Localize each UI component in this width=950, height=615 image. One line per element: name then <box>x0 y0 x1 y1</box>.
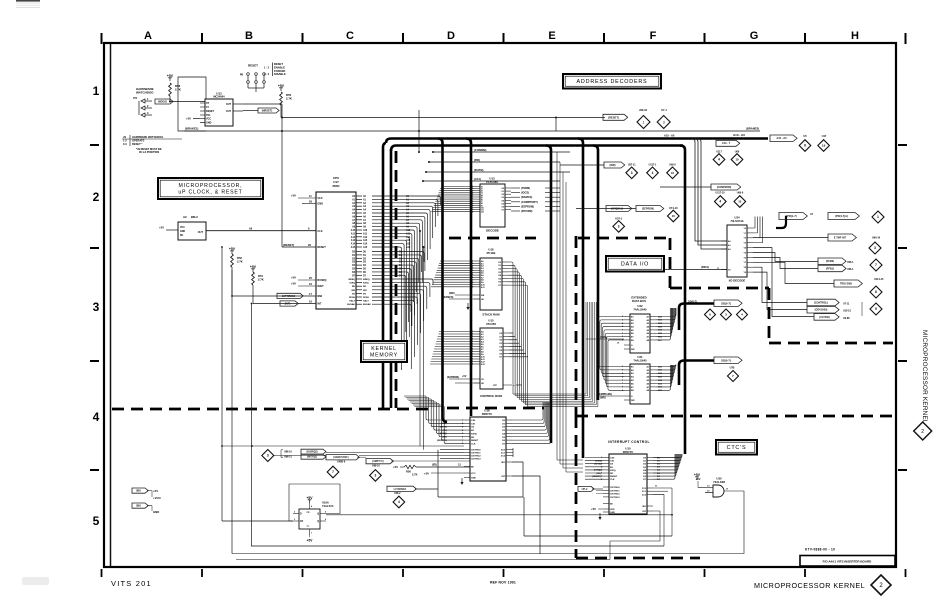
svg-text:SD(0-7): SD(0-7) <box>721 301 731 305</box>
wire loop around U12 <box>178 77 206 131</box>
diamond ref gencsync <box>327 466 339 478</box>
svg-text:CE: CE <box>471 427 475 429</box>
flag SMPTV <box>366 458 393 467</box>
wire bottom loop h446 <box>221 445 464 447</box>
svg-text:2.7K: 2.7K <box>237 259 243 263</box>
ic U21 74ALS645 buffer <box>622 355 656 404</box>
cpu data pins D0-D7 <box>352 252 367 278</box>
flag SD bus upper <box>688 299 742 306</box>
svg-text:BUSAK: BUSAK <box>347 303 355 306</box>
svg-text:3: 3 <box>874 246 876 250</box>
cpu address pins A0-A15 <box>351 195 368 249</box>
wire flip-flop Q out long <box>326 514 673 516</box>
flag E TMF INT <box>828 234 881 241</box>
cpu U17 Z80 <box>316 176 356 309</box>
flag TRIG END <box>834 278 884 287</box>
wire comrb y152 <box>432 151 570 153</box>
dashed boundary kernel memory left vertical <box>395 151 398 408</box>
svg-text:KERNEL: KERNEL <box>371 346 397 352</box>
svg-text:HALT: HALT <box>363 300 369 303</box>
svg-text:REF NOV 1991: REF NOV 1991 <box>490 580 516 584</box>
svg-text:RESET: RESET <box>248 64 258 68</box>
svg-text:(COMRB): (COMRB) <box>474 148 486 152</box>
svg-text:A10: A10 <box>351 229 356 232</box>
svg-text:5B0: 5B0 <box>136 504 141 508</box>
wire reset distribution vertical <box>423 246 425 450</box>
wire bottom vertical x232 <box>231 270 233 554</box>
svg-text:CK/TRG2: CK/TRG2 <box>471 456 481 458</box>
svg-text:(COMPROM): (COMPROM) <box>717 186 732 189</box>
wire bottom h521 to ck <box>222 520 293 522</box>
svg-text:CK: CK <box>300 521 304 523</box>
svg-text:(RD): (RD) <box>442 437 447 439</box>
svg-text:(IOCS): (IOCS) <box>521 191 529 195</box>
svg-text:U17: U17 <box>822 134 827 138</box>
svg-text:IEO: IEO <box>501 462 505 464</box>
svg-text:U96-14: U96-14 <box>872 237 881 240</box>
svg-text:(ULT400): (ULT400) <box>819 316 830 319</box>
svg-text:WR: WR <box>363 290 367 292</box>
svg-text:U48-2: U48-2 <box>394 492 401 495</box>
svg-text:7: 7 <box>875 263 877 267</box>
svg-text:MICROPROCESSOR KERNEL: MICROPROCESSOR KERNEL <box>754 581 865 590</box>
label box CTC'S <box>716 440 757 455</box>
svg-text:*J9 RESET MUST BE: *J9 RESET MUST BE <box>136 147 162 151</box>
svg-text:KTV-0888-00 - 10: KTV-0888-00 - 10 <box>805 548 835 552</box>
flag RESET1 <box>243 108 279 113</box>
diamond ref U74-10 <box>668 206 680 222</box>
wire wr y165 <box>560 164 604 166</box>
svg-text:U7-1: U7-1 <box>661 108 667 112</box>
bus drop at 583 <box>578 139 583 459</box>
svg-text:+5V: +5V <box>424 471 429 475</box>
flag CONTROL <box>807 299 850 306</box>
dashed boundary lower center vertical <box>575 416 578 558</box>
ic U16 stack ram <box>471 248 508 317</box>
svg-text:(DATB): (DATB) <box>474 168 483 172</box>
svg-text:+5V: +5V <box>291 282 296 286</box>
svg-text:MREQ: MREQ <box>348 279 355 281</box>
svg-text:(INT): (INT) <box>285 302 291 305</box>
svg-text:E: E <box>548 30 555 42</box>
svg-text:STACK RAM: STACK RAM <box>482 313 500 317</box>
flag INT net <box>253 299 316 306</box>
sheet border frame <box>104 43 896 567</box>
svg-text:DISABLE: DISABLE <box>274 72 286 76</box>
svg-text:DIR: DIR <box>631 400 635 402</box>
resistor R52 2.7K pullup <box>229 247 243 296</box>
svg-text:7: 7 <box>622 383 623 385</box>
svg-text:(IOCS): (IOCS) <box>594 464 601 466</box>
svg-text:LV DRIVE1: LV DRIVE1 <box>394 488 407 491</box>
svg-text:CTC'S: CTC'S <box>727 445 747 451</box>
svg-text:F/O A4A1 VITS INSERTER BOARD: F/O A4A1 VITS INSERTER BOARD <box>823 559 873 563</box>
svg-text:HALT: HALT <box>349 300 355 303</box>
diamond refs row WR <box>626 163 678 178</box>
svg-text:(RESET): (RESET) <box>283 243 294 247</box>
svg-text:U45B-9: U45B-9 <box>337 460 346 463</box>
svg-text:(RD): (RD) <box>596 473 601 475</box>
svg-text:Q: Q <box>317 521 319 523</box>
svg-text:27C256: 27C256 <box>486 322 496 326</box>
ic U22 74ALS645 buffer <box>622 304 656 353</box>
svg-text:A12: A12 <box>406 236 411 239</box>
svg-text:ST: ST <box>206 102 210 105</box>
power +5V flip-flop bottom <box>307 535 314 542</box>
svg-text:(ODV1800): (ODV1800) <box>815 309 828 312</box>
svg-text:(COMPPORT): (COMPPORT) <box>521 200 538 204</box>
svg-text:CK/TRG1: CK/TRG1 <box>610 490 620 492</box>
svg-text:A: A <box>144 30 152 42</box>
svg-text:+5V: +5V <box>153 489 158 493</box>
gate U30 74ALS08 <box>695 477 729 497</box>
svg-text:(INTRQ2): (INTRQ2) <box>307 457 317 459</box>
svg-text:GND: GND <box>180 231 185 233</box>
bus trunk H2 horizontal <box>391 146 683 152</box>
cpu control pins <box>347 279 371 306</box>
svg-text:CLK: CLK <box>317 230 322 233</box>
svg-text:CK/TRG0: CK/TRG0 <box>471 450 481 452</box>
bus drop at 383 <box>383 143 386 408</box>
diamond sheet number bottom <box>871 575 891 595</box>
svg-text:FORCED: FORCED <box>274 69 285 73</box>
column zone letters A-H <box>144 30 859 42</box>
svg-text:+5V: +5V <box>291 276 296 280</box>
svg-text:PL5C060: PL5C060 <box>486 180 498 184</box>
svg-text:A14: A14 <box>351 243 356 246</box>
svg-text:CONTROL ROM: CONTROL ROM <box>480 394 502 398</box>
svg-text:IN 1-2 POSITION: IN 1-2 POSITION <box>139 150 159 154</box>
svg-text:RD: RD <box>610 473 614 475</box>
svg-text:+5V: +5V <box>462 375 467 378</box>
wire U18 data fan right <box>512 402 551 443</box>
svg-text:U10-13: U10-13 <box>843 310 852 313</box>
svg-text:NC: NC <box>180 235 184 237</box>
connector P2 hardware watchdog input <box>133 96 152 117</box>
diamond refs reset <box>637 108 670 129</box>
label box DATA I/O <box>606 256 664 272</box>
wire fan into U18 left <box>326 396 464 458</box>
svg-text:U9-88: U9-88 <box>843 317 850 320</box>
svg-text:2.7K: 2.7K <box>412 472 418 476</box>
svg-text:(RAMCS): (RAMCS) <box>443 296 454 299</box>
svg-text:Z80CTC: Z80CTC <box>623 450 634 454</box>
cpu power pins <box>291 194 316 286</box>
flag BUSRQ2 INTRQ2 pair <box>281 449 326 459</box>
svg-text:74ALS08: 74ALS08 <box>713 480 725 484</box>
svg-text:U66-6: U66-6 <box>737 191 744 194</box>
svg-text:3: 3 <box>267 454 269 458</box>
bus drop at 471 <box>466 139 471 417</box>
svg-text:(RESET1): (RESET1) <box>437 440 447 442</box>
top-left corner print artifact <box>16 0 40 7</box>
svg-text:(GENCSYNC): (GENCSYNC) <box>333 456 348 459</box>
svg-text:(RTCWR): (RTCWR) <box>521 209 533 213</box>
svg-text:VCC: VCC <box>317 197 322 200</box>
svg-text:+5V: +5V <box>291 194 296 198</box>
wire U12 out to reset rail <box>243 104 283 247</box>
svg-text:MICROPROCESSOR KERNEL: MICROPROCESSOR KERNEL <box>921 330 928 424</box>
wire left taps <box>221 246 252 304</box>
svg-text:OUT: OUT <box>226 110 232 113</box>
bus drop at 551 <box>546 146 551 444</box>
ic U10 Z80CTC interrupt <box>601 447 653 514</box>
svg-text:9: 9 <box>875 307 877 311</box>
svg-text:U96-10: U96-10 <box>372 464 381 467</box>
svg-text:(WR): (WR) <box>609 163 615 167</box>
svg-text:(CS1): (CS1) <box>595 460 601 462</box>
svg-text:+5V: +5V <box>159 226 164 230</box>
row zone numbers 1-5 <box>93 84 100 528</box>
wire drops to ctc left <box>557 152 583 472</box>
svg-text:(IORQSAK): (IORQSAK) <box>611 207 623 210</box>
svg-text:10: 10 <box>735 158 739 162</box>
wire bottom vertical x222 <box>221 247 223 521</box>
svg-text:(RESET): (RESET) <box>608 115 619 119</box>
svg-text:A11: A11 <box>363 232 368 235</box>
svg-text:(BUSRQ2): (BUSRQ2) <box>306 451 317 453</box>
svg-text:GND: GND <box>317 203 323 206</box>
resistor R51 2.7K pullup <box>250 265 264 304</box>
svg-text:(FFB0): (FFB0) <box>826 259 834 263</box>
svg-text:U117: U117 <box>716 151 722 154</box>
dashed boundary data I/O right step 2 <box>768 288 771 343</box>
resistor R50 2.7K <box>278 84 292 118</box>
flag RESET distribution <box>603 114 628 120</box>
svg-text:+5V: +5V <box>591 507 596 511</box>
diamond sheet number side <box>914 422 932 440</box>
svg-text:E TMF INT: E TMF INT <box>834 236 847 239</box>
svg-text:A15: A15 <box>351 246 356 249</box>
svg-text:R51: R51 <box>258 274 263 278</box>
svg-text:(RD): (RD) <box>474 158 480 162</box>
svg-text:uP CLOCK, & RESET: uP CLOCK, & RESET <box>178 190 242 196</box>
svg-text:SD(0-7): SD(0-7) <box>688 299 697 303</box>
svg-text:1 - 2: 1 - 2 <box>264 66 270 69</box>
flag NMI net <box>232 292 316 299</box>
wire rd y162 <box>428 161 560 163</box>
svg-text:A13: A13 <box>351 239 356 242</box>
svg-text:(EEPROM): (EEPROM) <box>642 207 654 210</box>
diamond ref lv drive <box>393 496 405 508</box>
wire U18 outputs loop <box>415 450 540 554</box>
svg-text:3: 3 <box>93 300 100 314</box>
bottom-left faint artifact <box>22 577 49 585</box>
svg-text:VITS 201: VITS 201 <box>111 579 152 588</box>
dashed boundary row-4 horizontal left <box>112 408 430 411</box>
svg-text:6: 6 <box>875 290 877 294</box>
wire U10 data fan right to bus <box>653 454 682 481</box>
svg-text:(M1): (M1) <box>443 430 448 432</box>
svg-text:74ALS74: 74ALS74 <box>322 504 334 508</box>
bus drop at 685 <box>680 146 685 455</box>
svg-text:(BRAKE1): (BRAKE1) <box>185 127 198 131</box>
wire U18 IEI with resistor R56 <box>393 463 470 485</box>
dashed boundary data I/O right step 1 <box>669 238 672 288</box>
svg-text:MC34064: MC34064 <box>213 95 225 99</box>
wire address bus fan A0-A15 <box>372 195 441 370</box>
svg-text:DECODE: DECODE <box>486 229 499 233</box>
flag power 5B0 vcc <box>132 488 162 500</box>
svg-text:5B0: 5B0 <box>136 489 141 493</box>
wire fan U22 right to SD bus <box>656 308 676 342</box>
svg-text:IEI: IEI <box>610 504 613 506</box>
svg-text:IORQ: IORQ <box>363 283 369 285</box>
svg-text:CK/TRG2: CK/TRG2 <box>610 494 620 496</box>
wire kernel data bus verticals <box>508 262 598 407</box>
bus elbow SD upper <box>679 304 714 331</box>
svg-text:4: 4 <box>652 171 654 175</box>
svg-text:3: 3 <box>663 120 665 124</box>
svg-text:Z80C: Z80C <box>332 184 340 188</box>
label box MICROPROCESSOR uP CLOCK & RESET <box>158 178 263 199</box>
dashed boundary ctc top horizontal <box>576 415 893 418</box>
svg-text:+5V: +5V <box>307 538 314 542</box>
svg-text:R52: R52 <box>237 256 242 260</box>
svg-text:WR: WR <box>351 290 355 292</box>
wire reset to cpu <box>282 243 316 247</box>
diamond ref smptv <box>370 470 382 482</box>
svg-text:MICROPROCESSOR,: MICROPROCESSOR, <box>179 183 243 189</box>
power +5V flip-flop top <box>306 496 313 503</box>
dashed boundary data I/O top <box>578 237 670 240</box>
svg-text:OUT: OUT <box>226 103 232 106</box>
wire fan U21 right to SD bus <box>656 365 676 393</box>
svg-text:U66-5: U66-5 <box>669 163 676 166</box>
flag SD bus lower <box>714 357 742 369</box>
svg-text:RESET: RESET <box>274 62 283 66</box>
power +5V near ctc bus <box>694 473 701 480</box>
svg-text:10: 10 <box>672 214 676 218</box>
svg-text:(RAMCS): (RAMCS) <box>521 195 532 199</box>
svg-text:9: 9 <box>622 390 623 392</box>
svg-text:(WR): (WR) <box>600 397 606 400</box>
svg-text:CK/TRG3: CK/TRG3 <box>610 497 620 499</box>
svg-text:CLK: CLK <box>610 479 615 481</box>
svg-text:U114-15: U114-15 <box>874 278 884 281</box>
svg-text:10PT/RES2: 10PT/RES2 <box>282 295 296 298</box>
diamond ref busrq <box>262 450 274 462</box>
svg-text:CK/TRG1: CK/TRG1 <box>471 453 481 455</box>
bus trunk H1 horizontal <box>386 139 768 144</box>
wire U34 outputs to flags <box>753 217 834 317</box>
svg-text:RESET: RESET <box>610 476 618 478</box>
svg-text:(FFB1): (FFB1) <box>826 266 834 270</box>
svg-text:3: 3 <box>618 225 620 229</box>
svg-text:IEO: IEO <box>642 506 646 508</box>
svg-text:VCC: VCC <box>206 118 211 121</box>
svg-text:1: 1 <box>643 120 645 124</box>
flag CP trigger <box>578 486 603 493</box>
wire reset net y117 <box>282 117 605 119</box>
wire bottom vertical x251 <box>251 304 253 546</box>
wire brake net y131 <box>184 130 760 132</box>
flag power 5B0 gnd <box>132 503 159 514</box>
oscillator A2 BM-2 <box>159 215 206 240</box>
svg-text:A11: A11 <box>351 232 356 235</box>
svg-text:3: 3 <box>375 474 377 478</box>
svg-text:U117-10: U117-10 <box>715 191 725 194</box>
dashed boundary lower center horizontal <box>576 557 700 560</box>
dashed boundary data I/O left vertical <box>575 236 578 416</box>
svg-text:7: 7 <box>332 470 334 474</box>
svg-text:10: 10 <box>738 200 742 204</box>
svg-text:UP-2: UP-2 <box>582 488 588 491</box>
watchdog legend table <box>122 135 182 154</box>
svg-text:GND: GND <box>206 122 212 125</box>
svg-text:(COD): (COD) <box>600 337 607 339</box>
title block F/O board <box>800 556 895 567</box>
flag FFB0 <box>818 258 854 265</box>
power +5V R58 <box>167 74 174 81</box>
svg-text:Q: Q <box>317 514 319 516</box>
svg-text:A15: A15 <box>363 246 368 249</box>
svg-text:OUT: OUT <box>198 231 204 234</box>
svg-text:MREQ: MREQ <box>363 279 370 281</box>
svg-text:DIR: DIR <box>631 349 635 351</box>
wire U10 timer outputs <box>251 485 672 546</box>
svg-text:74LS374A: 74LS374A <box>730 219 743 223</box>
svg-text:74ALS645: 74ALS645 <box>633 358 647 362</box>
svg-text:RESET: RESET <box>317 246 326 249</box>
wire flip-flop feedback loop <box>289 484 340 521</box>
flag IORQSAK <box>606 206 632 212</box>
svg-text:3: 3 <box>631 171 633 175</box>
svg-text:G: G <box>750 30 759 42</box>
svg-text:P2: P2 <box>133 96 137 100</box>
svg-text:A13: A13 <box>363 239 368 242</box>
wire a11 y181 <box>422 180 560 182</box>
wire fan U22 U21 shared left bus <box>586 317 624 391</box>
svg-text:PC11B: PC11B <box>487 251 496 255</box>
svg-text:U117-1: U117-1 <box>649 163 657 166</box>
flag EEPROM <box>636 206 664 212</box>
svg-text:J30-34: J30-34 <box>639 108 648 112</box>
wire fan into U10 left <box>585 458 603 480</box>
svg-text:D: D <box>447 30 455 42</box>
svg-text:(A11): (A11) <box>474 177 481 181</box>
svg-text:CE: CE <box>610 464 614 466</box>
svg-text:(SMPT IV): (SMPT IV) <box>372 460 383 463</box>
svg-text:19: 19 <box>822 144 826 148</box>
svg-text:B: B <box>245 30 253 42</box>
svg-text:I/O DECODE: I/O DECODE <box>729 278 746 282</box>
svg-text:5: 5 <box>622 376 623 378</box>
svg-text:ADDRESS DECODERS: ADDRESS DECODERS <box>577 79 648 85</box>
jumper legend text <box>264 62 286 76</box>
svg-text:6: 6 <box>622 380 623 382</box>
svg-text:A10: A10 <box>363 229 368 232</box>
svg-text:A15: A15 <box>406 246 411 249</box>
wire control bus fan <box>372 279 433 369</box>
svg-text:U19A: U19A <box>322 500 329 504</box>
svg-text:(TERM): (TERM) <box>521 186 530 190</box>
bus elbow io-decode outputs <box>776 216 786 228</box>
svg-text:U5: U5 <box>803 134 807 138</box>
svg-text:MEMORY: MEMORY <box>370 353 398 359</box>
svg-text:5: 5 <box>93 514 100 528</box>
resistor R58 2.7K <box>169 83 181 103</box>
svg-text:U66-1: U66-1 <box>847 268 854 271</box>
wire comprom y187 <box>660 186 711 188</box>
svg-text:SD(0-7): SD(0-7) <box>721 358 731 362</box>
svg-text:4: 4 <box>398 500 400 504</box>
svg-text:U7B: U7B <box>730 366 735 369</box>
zone tick marks <box>90 33 907 577</box>
wire wdog to U12 <box>171 101 205 103</box>
svg-text:(RESET): (RESET) <box>592 476 601 478</box>
wire data bus fan D0-D7 <box>372 252 424 333</box>
